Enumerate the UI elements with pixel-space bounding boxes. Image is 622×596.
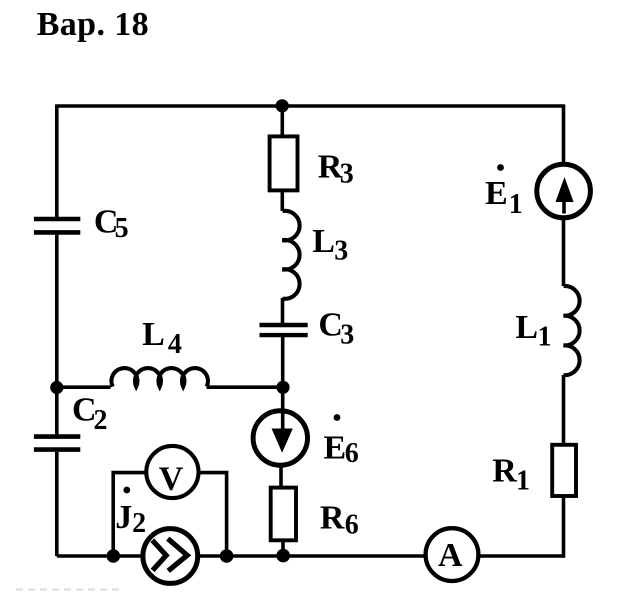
wire middle top (top node to R3) [280,106,284,135]
resistor R1 [552,445,576,496]
wire top (node top-left to top-right corner) [57,104,564,108]
node bottom bracket-left junction [107,549,121,563]
wire voltmeter bracket right [199,473,227,556]
svg-text:L: L [312,223,335,260]
svg-text:A: A [438,537,463,574]
svg-text:5: 5 [115,213,129,244]
wire left middle (C5 to C2) [55,235,59,435]
inductor L1 [564,286,580,375]
ammeter A [426,528,479,581]
svg-text:6: 6 [345,510,359,541]
wire right E1-to-L1 [562,220,566,286]
svg-text:3: 3 [340,320,354,351]
wire bottom right segment (A to bottom-right corner) [480,554,564,558]
svg-text:J: J [115,499,132,536]
source E6 (circle, arrow down) [253,411,307,465]
capacitor C5 [34,219,80,232]
wire L4 branch right [207,385,283,389]
svg-text:R: R [320,499,345,536]
wire middle R3-to-L3 [280,192,284,211]
svg-text:L: L [142,316,165,353]
wire left lower (C2 to bottom-left corner) [55,452,59,556]
node bottom R6 junction [276,549,290,563]
svg-text:V: V [159,461,184,498]
svg-text:Вар. 18: Вар. 18 [37,6,149,43]
svg-text:3: 3 [340,158,354,189]
svg-text:2: 2 [94,405,108,436]
wire left upper (top-left corner to C5) [55,104,59,217]
svg-text:E: E [485,175,508,212]
wire bottom middle segment (J2 to A) [200,554,425,558]
svg-text:1: 1 [516,466,530,497]
svg-text:1: 1 [538,322,552,353]
wire middle L3-to-C3 [281,298,285,323]
scan artifact bottom edge [16,589,120,591]
resistor R6 [271,488,296,541]
wire L4 branch left [57,385,111,389]
node top junction [276,99,289,112]
svg-text:6: 6 [345,438,359,469]
node bottom bracket-right junction [220,549,234,563]
svg-text:E: E [324,429,347,466]
svg-text:R: R [492,453,517,490]
wire right R1-to-corner [562,498,566,558]
wire voltmeter bracket left [113,473,146,556]
svg-text:2: 2 [132,508,146,539]
source E1 (circle, arrow up) [537,164,591,218]
voltmeter V [146,446,198,498]
wire bottom left segment (corner to J2) [57,554,141,558]
resistor R3 [270,136,298,190]
wire right L1-to-R1 [562,375,566,443]
wire middle C3-to-node-to-E6 [281,337,285,430]
node left L4 junction [50,381,63,394]
svg-text:3: 3 [334,235,348,266]
wire middle E6-to-R6 [279,467,283,486]
wire middle R6-to-bottom [281,542,285,558]
inductor L4 [111,368,208,387]
svg-text:C: C [318,306,343,343]
node middle L4/C3/E6 junction [276,381,289,394]
inductor L3 [282,211,299,299]
capacitor C3 [260,325,308,335]
svg-text:1: 1 [509,189,523,220]
source J2 (circle, double chevron) [143,529,198,584]
svg-text:4: 4 [168,329,182,360]
capacitor C2 [34,437,80,450]
wire right upper (top-right corner to E1) [562,104,566,162]
svg-text:L: L [515,309,538,346]
